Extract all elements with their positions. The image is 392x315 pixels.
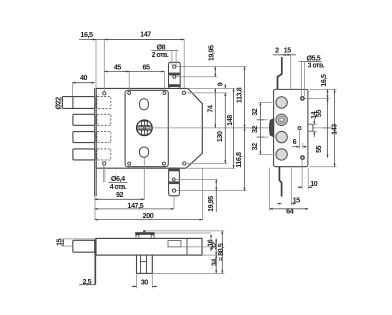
seam line xyxy=(186,238,188,255)
dim 200 xyxy=(202,168,204,219)
right side extension lines xyxy=(187,88,236,168)
dim 74 xyxy=(214,88,216,127)
bolt B2 xyxy=(73,114,95,125)
faceplate strip (main view) xyxy=(94,88,96,196)
svg-text:55: 55 xyxy=(314,145,323,153)
bolt circle 3 xyxy=(276,131,287,142)
svg-text:9: 9 xyxy=(216,82,225,86)
svg-text:Ø6,4: Ø6,4 xyxy=(111,174,125,183)
bolt B1 (top, extended) xyxy=(62,97,94,109)
hidden bolt bodies (dashed) xyxy=(97,97,111,160)
bolt circle 4 xyxy=(276,149,287,160)
slot rect (hidden) xyxy=(168,241,181,247)
svg-text:147: 147 xyxy=(140,30,151,39)
dim 64 xyxy=(269,168,271,211)
svg-text:147,5: 147,5 xyxy=(127,201,143,210)
latch slot 14 xyxy=(308,124,313,131)
bottom tab xyxy=(169,168,180,196)
faceplate (side) xyxy=(94,238,96,284)
bolt B3 xyxy=(73,132,95,143)
top tab xyxy=(169,62,181,88)
svg-text:Ø5,5: Ø5,5 xyxy=(307,53,321,62)
svg-text:15: 15 xyxy=(284,46,292,55)
dims 32 32 32 (left of right view) xyxy=(258,103,272,155)
top tab hole 1 xyxy=(173,65,176,68)
svg-text:74: 74 xyxy=(206,105,215,113)
svg-text:≈ 80,5: ≈ 80,5 xyxy=(216,243,225,261)
lock case outline xyxy=(96,88,202,168)
svg-text:32: 32 xyxy=(250,126,259,134)
svg-text:92: 92 xyxy=(116,190,124,199)
svg-text:116,8: 116,8 xyxy=(234,152,243,168)
dim 32 xyxy=(215,238,217,255)
svg-text:Ø8: Ø8 xyxy=(156,42,165,51)
dim 10 xyxy=(301,160,303,190)
dim 16 xyxy=(210,235,212,239)
dim 80,5 xyxy=(221,231,223,274)
bolt (side) xyxy=(73,240,95,252)
cylinder xyxy=(137,120,153,136)
dim 16,5 (right view) xyxy=(305,97,330,99)
svg-text:14: 14 xyxy=(309,111,318,119)
svg-text:3 отв.: 3 отв. xyxy=(308,63,325,70)
dim 34 xyxy=(215,255,217,273)
bottom oval hole xyxy=(140,147,149,157)
svg-text:10: 10 xyxy=(310,179,318,188)
bottom tab hatch band 2 xyxy=(169,181,179,184)
dim 116,8 xyxy=(176,190,247,192)
svg-text:45: 45 xyxy=(114,62,122,71)
dim 6 xyxy=(299,130,301,149)
bolt circle 2 with rings xyxy=(276,114,287,125)
dim 14 xyxy=(308,123,317,125)
svg-text:30: 30 xyxy=(141,278,149,287)
side lip (dark) xyxy=(270,119,274,137)
svg-text:64: 64 xyxy=(286,207,294,216)
ext lines right of side view xyxy=(146,231,225,274)
bolt circle 1 xyxy=(276,97,287,108)
small hole middle xyxy=(298,127,301,130)
svg-text:2,5: 2,5 xyxy=(82,277,91,286)
dim 147,5 xyxy=(173,196,175,209)
svg-text:130: 130 xyxy=(215,131,224,142)
dim 16,5 / 147 line xyxy=(79,39,184,41)
svg-text:19,95: 19,95 xyxy=(206,196,215,212)
top tab hatch band 2 xyxy=(169,84,180,87)
bottom tab hole B xyxy=(172,189,175,192)
svg-text:6: 6 xyxy=(293,137,297,146)
dim 15 (side) xyxy=(62,238,96,240)
svg-text:2 отв.: 2 отв. xyxy=(152,52,169,59)
label Ø6,4 4 отв. xyxy=(103,165,105,182)
svg-text:113,8: 113,8 xyxy=(235,87,244,103)
small hole bottom xyxy=(301,156,304,159)
dim 19,95 bottom xyxy=(176,178,217,180)
faceplate plate xyxy=(274,89,308,166)
faceplate extension to lower dims xyxy=(94,196,96,220)
faceplate bottom tick xyxy=(79,284,96,286)
dim 30 xyxy=(136,273,138,288)
top bent strip xyxy=(278,57,282,89)
svg-text:15: 15 xyxy=(293,195,301,204)
svg-text:65: 65 xyxy=(142,62,150,71)
bottom bent leg xyxy=(279,167,281,197)
cylinder axis vertical extension down xyxy=(143,157,145,199)
dim 55 / 55 xyxy=(327,98,329,157)
dim 45 / 65 xyxy=(104,71,164,73)
svg-text:200: 200 xyxy=(143,211,154,220)
dim 15 bottom xyxy=(291,168,293,206)
dim 148 xyxy=(233,88,235,168)
dim 2 15 (top) xyxy=(290,55,292,90)
small hole top xyxy=(301,97,304,100)
svg-text:143: 143 xyxy=(329,124,338,135)
dim 19,95 top xyxy=(176,66,218,68)
cover plate xyxy=(125,90,168,166)
top tab hatch band 1 xyxy=(169,73,180,76)
svg-text:16,5: 16,5 xyxy=(319,74,328,87)
cylinder axis line to right view xyxy=(152,127,330,129)
cover plate screws xyxy=(128,91,131,94)
svg-text:Ø22: Ø22 xyxy=(54,97,63,110)
svg-text:32: 32 xyxy=(250,143,259,151)
dim 113,8 xyxy=(218,66,247,68)
dim 92 xyxy=(95,198,145,200)
svg-text:15: 15 xyxy=(54,238,63,246)
case body xyxy=(96,238,202,255)
top tab hole 2 xyxy=(173,75,176,78)
bolt B4 xyxy=(73,149,95,160)
svg-text:40: 40 xyxy=(80,73,88,82)
case screw holes xyxy=(103,92,106,95)
ext lines top xyxy=(72,40,184,97)
svg-text:32: 32 xyxy=(250,108,259,116)
tab bump (side) xyxy=(135,232,154,235)
dim 9 and 130 xyxy=(224,84,226,88)
svg-text:16,5: 16,5 xyxy=(80,30,93,39)
top oval hole xyxy=(140,99,149,110)
bottom tab hatch band 1 xyxy=(169,169,179,172)
svg-text:19,95: 19,95 xyxy=(206,45,215,61)
cylinder block below xyxy=(137,255,153,273)
dim 143 xyxy=(310,88,337,90)
dim 40 xyxy=(72,82,94,84)
bottom tab hole A xyxy=(172,178,175,181)
svg-text:2: 2 xyxy=(275,46,279,55)
svg-text:148: 148 xyxy=(225,115,234,126)
